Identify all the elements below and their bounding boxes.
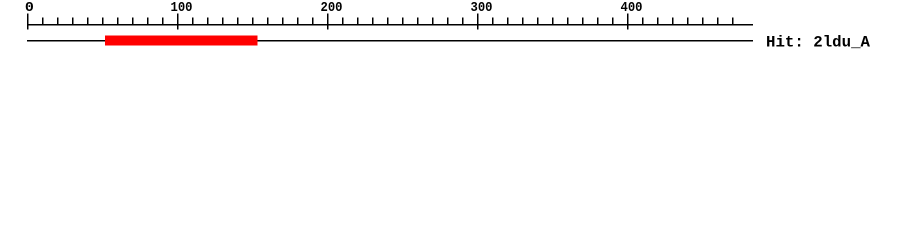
minor tick 110	[192, 18, 194, 26]
query/hit line left segment	[27, 40, 105, 41]
minor tick 420	[657, 18, 659, 26]
major tick 200	[327, 14, 329, 30]
minor tick 160	[267, 18, 269, 26]
major tick 0	[27, 14, 29, 30]
minor tick 290	[462, 18, 464, 26]
minor tick 140	[237, 18, 239, 26]
minor tick 440	[687, 18, 689, 26]
query/hit line right segment	[258, 40, 754, 41]
minor tick 50	[102, 18, 104, 26]
minor tick 40	[87, 18, 89, 26]
minor tick 30	[72, 18, 74, 26]
svg-text:200: 200	[321, 0, 343, 16]
minor tick 280	[447, 18, 449, 26]
minor tick 60	[117, 18, 119, 26]
minor tick 360	[567, 18, 569, 26]
minor tick 230	[372, 18, 374, 26]
minor tick 390	[612, 18, 614, 26]
svg-text:400: 400	[621, 0, 643, 16]
major tick 300	[477, 14, 479, 30]
minor tick 270	[432, 18, 434, 26]
minor tick 20	[57, 18, 59, 26]
major tick 400	[627, 14, 629, 30]
minor tick 410	[642, 18, 644, 26]
minor tick 170	[282, 18, 284, 26]
minor tick 90	[162, 18, 164, 26]
svg-text:Hit: 2ldu_A: Hit: 2ldu_A	[766, 34, 871, 52]
minor tick 180	[297, 18, 299, 26]
minor tick 220	[357, 18, 359, 26]
svg-text:100: 100	[171, 0, 193, 16]
red alignment bar (matched region)	[105, 36, 258, 46]
minor tick 240	[387, 18, 389, 26]
major tick 100	[177, 14, 179, 30]
minor tick 210	[342, 18, 344, 26]
minor tick 380	[597, 18, 599, 26]
minor tick 430	[672, 18, 674, 26]
minor tick 340	[537, 18, 539, 26]
ruler axis line	[27, 24, 753, 25]
minor tick 460	[717, 18, 719, 26]
minor tick 130	[222, 18, 224, 26]
minor tick 350	[552, 18, 554, 26]
minor tick 10	[42, 18, 44, 26]
minor tick 370	[582, 18, 584, 26]
minor tick 310	[492, 18, 494, 26]
minor tick 80	[147, 18, 149, 26]
minor tick 250	[402, 18, 404, 26]
minor tick 450	[702, 18, 704, 26]
minor tick 120	[207, 18, 209, 26]
svg-text:300: 300	[471, 0, 493, 16]
minor tick 190	[312, 18, 314, 26]
minor tick 150	[252, 18, 254, 26]
minor tick 330	[522, 18, 524, 26]
svg-text:0: 0	[25, 0, 34, 16]
minor tick 320	[507, 18, 509, 26]
minor tick 260	[417, 18, 419, 26]
minor tick 470	[732, 18, 734, 26]
minor tick 70	[132, 18, 134, 26]
